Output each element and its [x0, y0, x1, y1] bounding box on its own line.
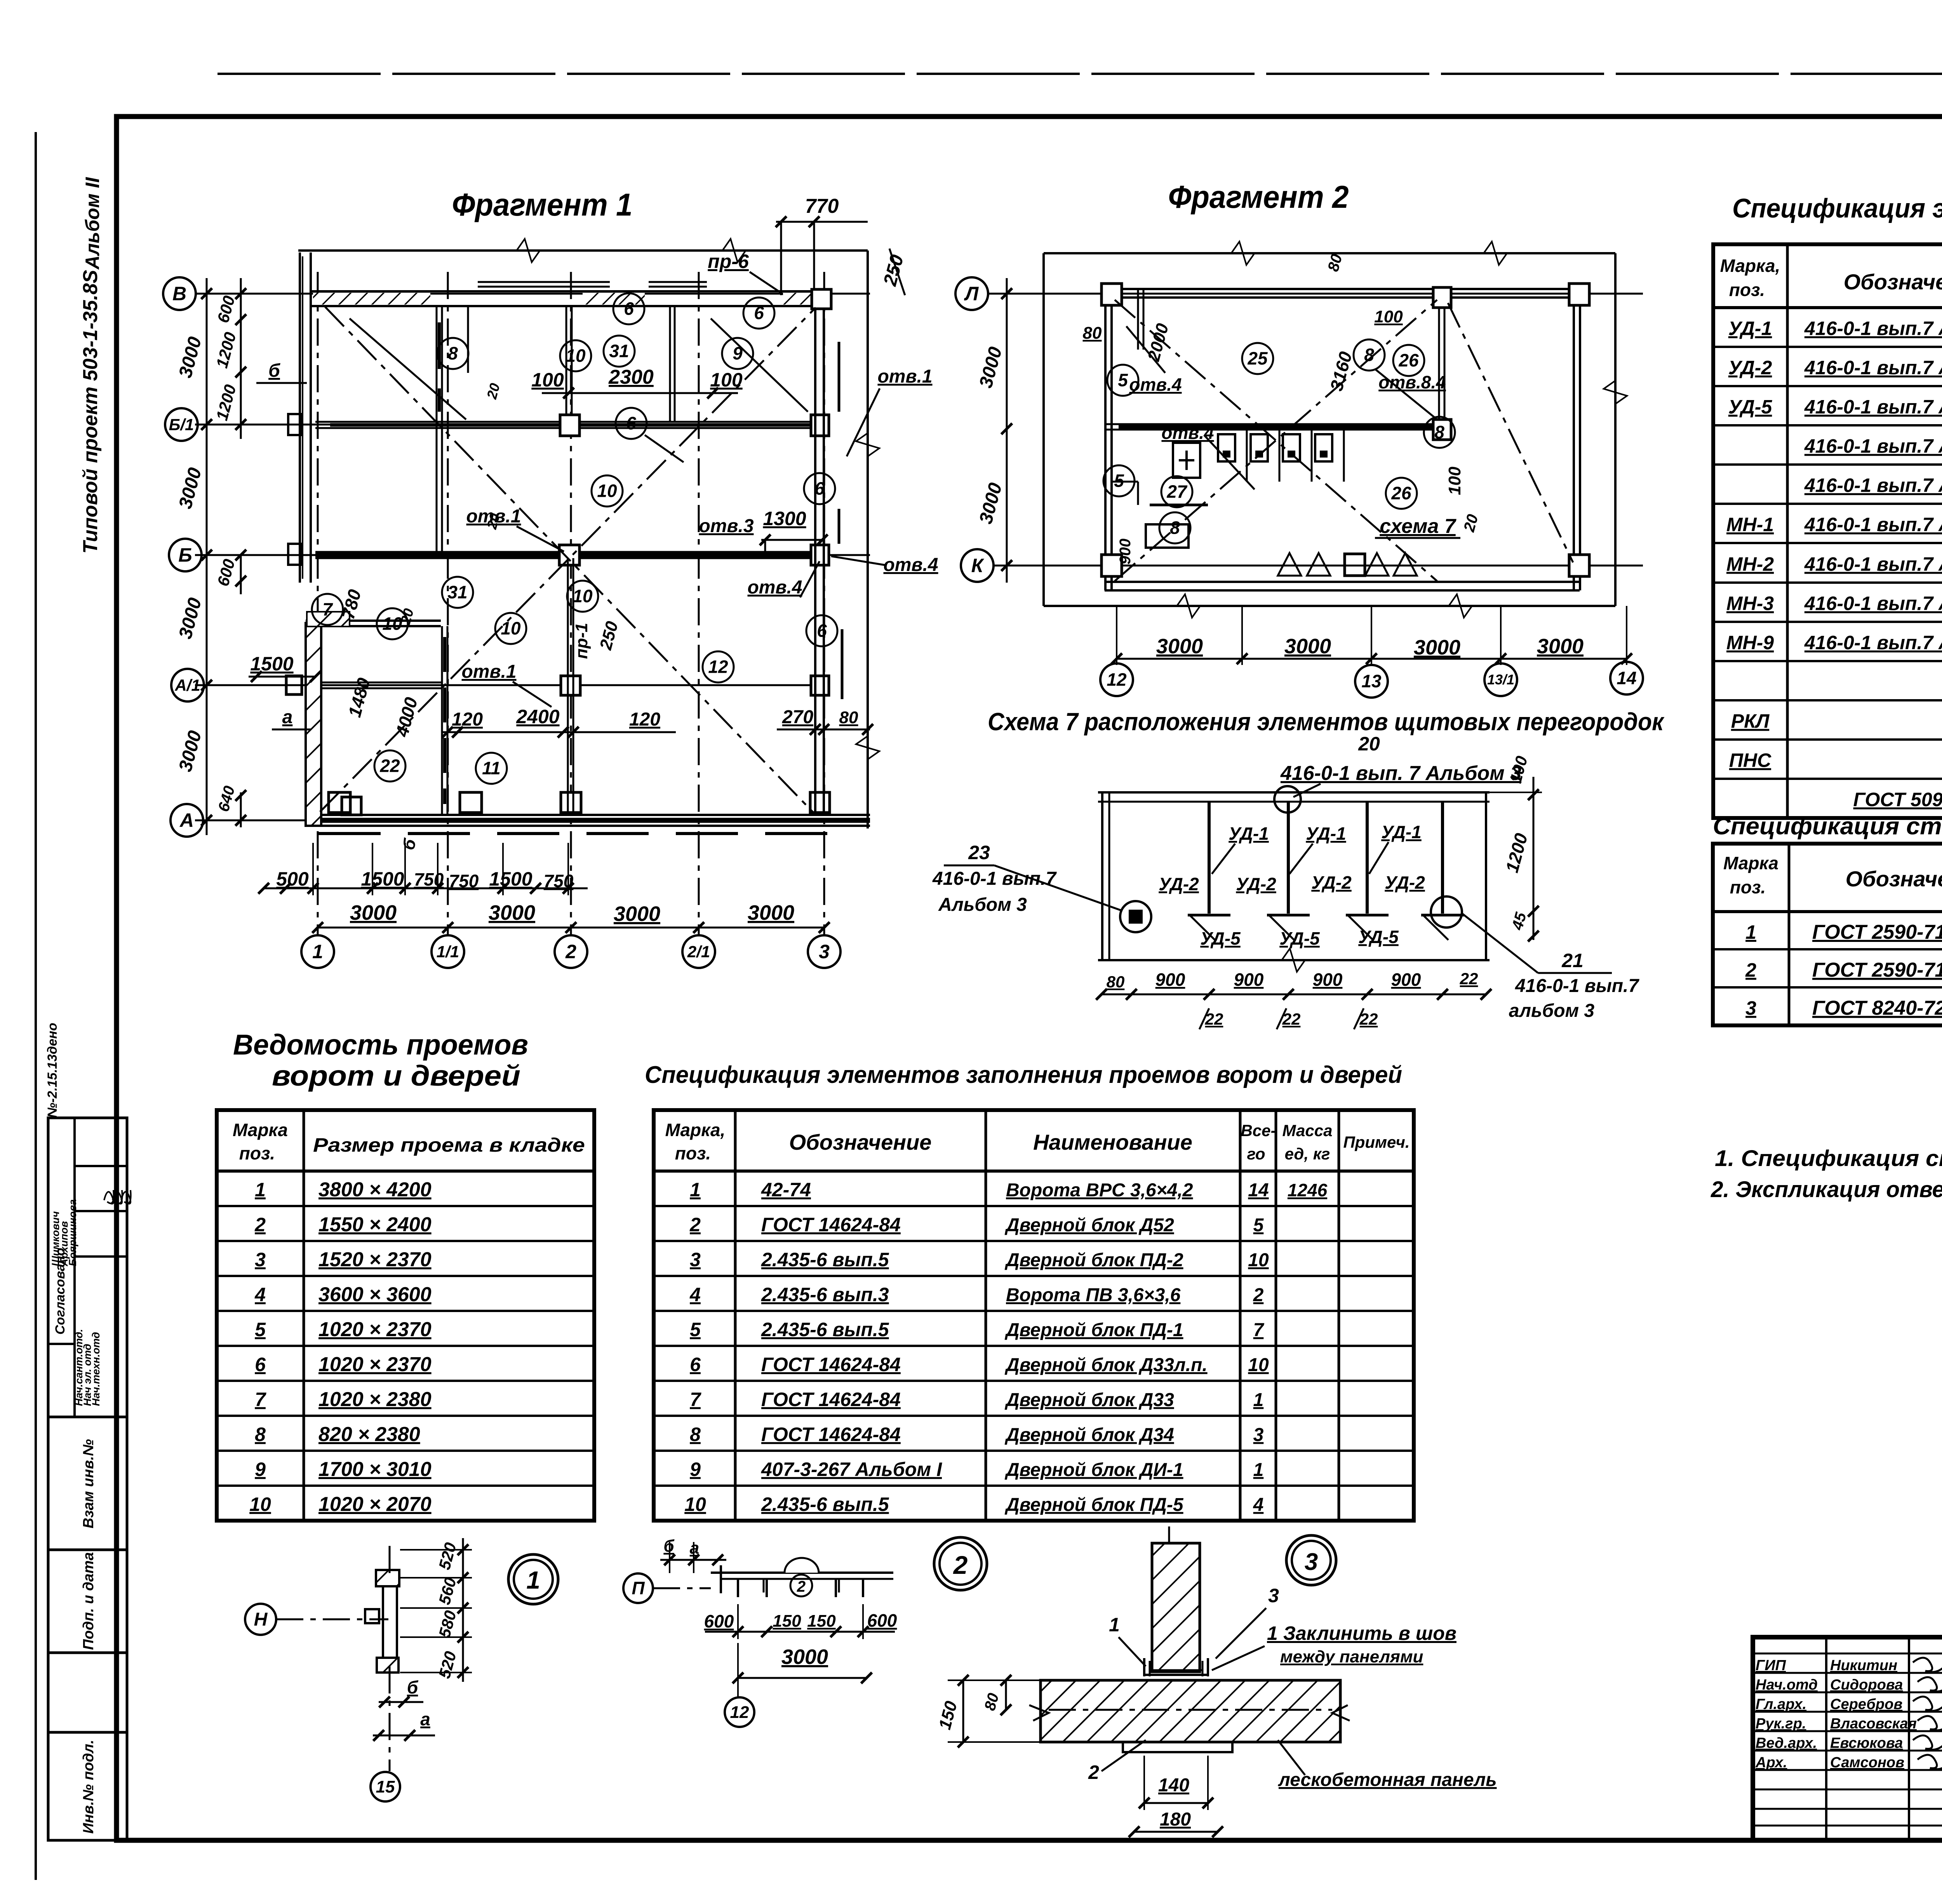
svg-text:23: 23 [968, 842, 990, 863]
svg-text:б: б [407, 1677, 419, 1697]
svg-text:3000: 3000 [781, 1645, 828, 1669]
axis circle 14 [1610, 662, 1643, 694]
fragment 2 left wall stub above [1137, 289, 1139, 350]
svg-text:УД-2: УД-2 [1385, 872, 1425, 893]
svg-text:2300: 2300 [608, 366, 654, 388]
svg-text:3000: 3000 [1414, 636, 1460, 659]
left page edge line [35, 132, 37, 1880]
svg-text:поз.: поз. [239, 1143, 275, 1163]
svg-text:отв.3: отв.3 [699, 516, 753, 536]
detail 2 small circle 2 [790, 1575, 812, 1596]
svg-text:МН-9: МН-9 [1726, 632, 1774, 654]
wall along axis В [311, 290, 820, 292]
svg-text:Обозначение: Обозначение [1844, 270, 1942, 294]
title block signature columns [1825, 1637, 1827, 1840]
svg-text:10: 10 [1248, 1355, 1269, 1375]
detail 1 left protrusion [365, 1609, 379, 1623]
callout circle 11 [476, 753, 507, 784]
svg-text:1520 × 2370: 1520 × 2370 [318, 1248, 432, 1271]
callout circle 6 [613, 293, 644, 324]
partition wall at Б/1 [315, 421, 827, 423]
axis circle К [961, 549, 994, 582]
svg-text:140: 140 [1158, 1775, 1189, 1796]
svg-text:2.435-6 вып.5: 2.435-6 вып.5 [761, 1319, 889, 1340]
svg-text:8: 8 [1364, 345, 1374, 365]
junction detail at Б/1 x2 [560, 415, 579, 436]
upper partition x=1731 [669, 307, 671, 422]
svg-text:21: 21 [1561, 950, 1584, 971]
svg-text:2: 2 [1253, 1285, 1264, 1305]
svg-text:6: 6 [690, 1354, 701, 1375]
svg-text:ГОСТ 2590-71: ГОСТ 2590-71 [1812, 959, 1942, 982]
svg-text:Ворота ВРС 3,6×4,2: Ворота ВРС 3,6×4,2 [1006, 1180, 1193, 1201]
fragment 1 right cut line [867, 251, 869, 828]
fragment 2 left wall [1104, 289, 1107, 590]
svg-text:1500: 1500 [250, 653, 293, 675]
svg-text:Арх.: Арх. [1755, 1754, 1787, 1771]
washroom fixture with cross [1173, 443, 1200, 478]
svg-text:1020 × 2380: 1020 × 2380 [318, 1388, 432, 1411]
svg-text:1500: 1500 [361, 868, 404, 890]
svg-text:альбом 3: альбом 3 [1509, 1001, 1595, 1021]
shelf line [1150, 504, 1208, 506]
toilet fixtures [1218, 434, 1235, 461]
detail 2 partition plan [711, 1572, 893, 1574]
fragment 2 diagonal 1 [1115, 300, 1437, 581]
left dim line fragment 2 [1006, 278, 1008, 583]
dim 640 at А [240, 792, 242, 827]
svg-text:ГОСТ 14624-84: ГОСТ 14624-84 [761, 1354, 901, 1375]
svg-text:Б: Б [178, 544, 192, 566]
callout circle 9 [722, 338, 753, 369]
svg-text:Рук.гр.: Рук.гр. [1756, 1716, 1806, 1732]
axis circle 12 [1100, 663, 1133, 696]
svg-text:Марка,: Марка, [1720, 256, 1780, 276]
svg-text:13/1: 13/1 [1487, 672, 1514, 687]
svg-text:Ворота ПВ 3,6×3,6: Ворота ПВ 3,6×3,6 [1006, 1285, 1181, 1305]
detail 2 view circle [934, 1537, 987, 1590]
svg-text:10: 10 [684, 1493, 706, 1515]
left outer wall upper [299, 252, 301, 583]
svg-text:600: 600 [867, 1610, 897, 1631]
svg-text:900: 900 [1117, 539, 1134, 565]
svg-text:2: 2 [565, 941, 576, 962]
svg-text:Подп. и дата: Подп. и дата [80, 1552, 97, 1650]
grid axis line 2/1 [698, 272, 700, 935]
svg-text:14: 14 [1617, 668, 1636, 688]
svg-text:Н: Н [254, 1609, 268, 1630]
diagonal leader from 6 to wall [645, 435, 684, 462]
spec table 2 grid [1713, 844, 1942, 1025]
svg-text:100: 100 [1445, 466, 1464, 495]
svg-text:20: 20 [1358, 733, 1380, 755]
svg-text:Обозначение: Обозначение [1846, 867, 1942, 891]
svg-text:поз.: поз. [1729, 280, 1765, 300]
svg-text:900: 900 [1313, 969, 1343, 990]
slab break arrows [1029, 1705, 1049, 1721]
svg-text:3600 × 3600: 3600 × 3600 [318, 1283, 432, 1306]
axis line К [993, 565, 1643, 567]
svg-text:13: 13 [1361, 671, 1382, 691]
svg-text:5: 5 [1114, 471, 1124, 491]
axis circle 13 [1355, 665, 1388, 698]
svg-text:МН-1: МН-1 [1726, 514, 1774, 536]
svg-text:6: 6 [814, 479, 825, 499]
svg-text:2: 2 [689, 1214, 701, 1236]
axis circle А [171, 804, 203, 837]
svg-text:12: 12 [730, 1703, 749, 1722]
svg-text:УД-5: УД-5 [1728, 396, 1773, 418]
svg-text:416-0-1 вып.7 Альбом 2: 416-0-1 вып.7 Альбом 2 [1804, 632, 1942, 654]
lower partition x=1464 [567, 558, 569, 815]
right wall fittings [812, 289, 831, 309]
scheme posts [1208, 802, 1211, 914]
svg-text:2.435-6 вып.3: 2.435-6 вып.3 [761, 1284, 889, 1305]
right wall small plates outside [838, 342, 840, 412]
svg-text:2400: 2400 [516, 706, 559, 727]
svg-text:22: 22 [379, 756, 400, 776]
svg-text:1550 × 2400: 1550 × 2400 [318, 1213, 432, 1236]
extension lines left [195, 293, 303, 294]
svg-text:го: го [1247, 1145, 1265, 1163]
secondary left dim 600 1200 1200 [240, 278, 242, 439]
axis circle 2/1 [682, 935, 715, 968]
right outer wall [814, 307, 816, 815]
fragment 2 bottom wall [1105, 581, 1580, 583]
callout circle 6 [743, 298, 774, 329]
axis circle 1 [301, 935, 334, 968]
svg-text:2.435-6 вып.5: 2.435-6 вып.5 [761, 1249, 889, 1270]
axis circle 3 [808, 935, 840, 968]
svg-text:3: 3 [1745, 997, 1756, 1019]
axis line А/1 [195, 684, 827, 686]
svg-text:8: 8 [1170, 518, 1180, 538]
svg-text:отв.4: отв.4 [1129, 374, 1182, 395]
svg-text:3: 3 [690, 1249, 701, 1270]
svg-text:416-0-1 вып.7 Альбом 2: 416-0-1 вып.7 Альбом 2 [1804, 553, 1942, 575]
detail 1 center line [389, 1546, 391, 1577]
callout circle 31 [604, 336, 635, 367]
svg-text:11: 11 [482, 758, 501, 778]
toilet stall partitions [1246, 430, 1248, 482]
svg-text:Альбом II: Альбом II [82, 177, 103, 270]
upper partition x=1464 [566, 307, 567, 415]
svg-text:УД-1: УД-1 [1306, 823, 1346, 844]
svg-text:МН-3: МН-3 [1726, 593, 1774, 614]
detail 3 channel [1143, 1658, 1145, 1676]
callout circle 12 [703, 651, 734, 682]
svg-text:5: 5 [1118, 370, 1128, 390]
svg-text:1. Спецификация стали дана: 1. Спецификация стали дана на один узел … [1715, 1146, 1942, 1171]
svg-text:1: 1 [690, 1179, 701, 1201]
svg-text:1/1: 1/1 [437, 942, 459, 961]
callout circle 8 [437, 338, 468, 369]
svg-text:УД-1: УД-1 [1728, 318, 1772, 339]
svg-text:416-0-1 вып.7 Альбом 2: 416-0-1 вып.7 Альбом 2 [1804, 475, 1942, 496]
svg-text:6: 6 [624, 299, 634, 319]
equipment triangles on bottom wall [1278, 553, 1301, 576]
svg-text:1246: 1246 [1288, 1180, 1328, 1200]
fragment 2 right cut lines [1614, 253, 1617, 606]
callout circle 5 [1107, 365, 1138, 396]
scheme right edge [1485, 792, 1487, 960]
callout circle 26 [1386, 478, 1417, 509]
fragment 2 left inner stub lower [1137, 482, 1139, 505]
svg-text:Нач.техн.отд: Нач.техн.отд [90, 1332, 102, 1406]
callout circle 25 [1242, 343, 1273, 374]
svg-text:3000: 3000 [1537, 635, 1584, 658]
svg-text:УД-5: УД-5 [1358, 927, 1399, 947]
fragment 2 diagonal 2 [1115, 300, 1437, 581]
svg-text:1: 1 [1109, 1614, 1120, 1636]
svg-text:УД-1: УД-1 [1381, 822, 1422, 842]
svg-text:Дверной блок Д33л.п.: Дверной блок Д33л.п. [1004, 1355, 1208, 1375]
svg-text:2: 2 [797, 1578, 806, 1595]
svg-text:УД-1: УД-1 [1229, 823, 1269, 844]
svg-text:Фрагмент 1: Фрагмент 1 [452, 187, 633, 223]
svg-text:80: 80 [1107, 973, 1125, 991]
svg-text:416-0-1 вып.7 Альбом 2: 416-0-1 вып.7 Альбом 2 [1804, 318, 1942, 339]
wall fitting at Б/1 left [288, 414, 301, 435]
callout circle 8 [1159, 512, 1190, 543]
svg-text:Бояршинова: Бояршинова [67, 1199, 78, 1266]
callout circle 6 [804, 473, 835, 504]
svg-text:Дверной блок ПД-1: Дверной блок ПД-1 [1004, 1320, 1183, 1340]
callout circle 27 [1161, 476, 1192, 507]
svg-text:пр-6: пр-6 [708, 251, 749, 272]
svg-text:900: 900 [1234, 969, 1264, 990]
svg-text:Спецификация стали на узел к: Спецификация стали на узел крепления кир… [1713, 813, 1942, 840]
diagonal leader upper-left [350, 318, 466, 419]
left margin stamp table [48, 1118, 127, 1840]
svg-text:УД-2: УД-2 [1728, 357, 1772, 379]
svg-text:ГОСТ 14624-84: ГОСТ 14624-84 [761, 1214, 901, 1236]
scheme dim row [1102, 994, 1486, 996]
svg-text:Ведомость проемов: Ведомость проемов [233, 1029, 528, 1061]
svg-text:270: 270 [782, 707, 813, 727]
svg-text:2: 2 [1745, 959, 1756, 981]
svg-text:б: б [268, 360, 280, 381]
svg-text:3000: 3000 [614, 902, 660, 926]
lower partition x=1145 [441, 626, 443, 815]
svg-text:1020 × 2370: 1020 × 2370 [318, 1318, 432, 1341]
detail 2 left end bar [720, 1565, 722, 1593]
svg-text:416-0-1 вып.7 Альбом 2: 416-0-1 вып.7 Альбом 2 [1804, 357, 1942, 379]
svg-text:отв.1: отв.1 [877, 366, 932, 387]
detail 2 bump arc [785, 1558, 819, 1573]
detail 1 vertical bars [382, 1586, 384, 1658]
svg-text:Никитин: Никитин [1830, 1657, 1897, 1674]
svg-text:МН-2: МН-2 [1726, 553, 1774, 575]
page top edge line [218, 73, 1942, 75]
svg-text:Дверной блок ПД-2: Дверной блок ПД-2 [1004, 1250, 1183, 1270]
svg-text:Наименование: Наименование [1033, 1130, 1192, 1154]
lower room top wall [306, 620, 441, 622]
fragment 2 vertical partition [1438, 289, 1440, 430]
svg-text:Вед.арх.: Вед.арх. [1756, 1735, 1817, 1751]
diagonal brace line 1 [325, 307, 816, 815]
svg-text:10: 10 [382, 614, 402, 634]
svg-text:А/1: А/1 [174, 676, 200, 694]
svg-text:Марка,: Марка, [665, 1120, 726, 1140]
junction detail at А/1 x2 [561, 676, 580, 695]
svg-text:ГОСТ 8240-72: ГОСТ 8240-72 [1812, 997, 1942, 1020]
svg-text:150: 150 [807, 1612, 836, 1631]
partition stub from В wall down at x=1205 [467, 307, 469, 373]
scheme band bottom [1098, 959, 1490, 961]
svg-text:3: 3 [1305, 1549, 1318, 1575]
svg-text:1: 1 [1253, 1390, 1264, 1410]
junction detail at Б right [811, 545, 829, 565]
grid axis line 1 [317, 272, 319, 935]
svg-text:150: 150 [773, 1612, 801, 1631]
axis circle В [163, 277, 196, 310]
callout circle 6 [616, 408, 647, 439]
svg-text:отв.8.4: отв.8.4 [1378, 372, 1446, 392]
svg-text:К: К [971, 555, 985, 576]
axis circle 13/1 [1484, 663, 1517, 696]
wall fittings fragment 2 [1102, 284, 1122, 305]
svg-text:6: 6 [817, 621, 827, 641]
svg-text:7: 7 [690, 1389, 701, 1410]
svg-text:8: 8 [448, 343, 458, 364]
svg-text:416-0-1 вып.7 Альбом 2: 416-0-1 вып.7 Альбом 2 [1804, 593, 1942, 614]
title block signature rows [1753, 1653, 1942, 1655]
svg-text:ГОСТ 2590-71: ГОСТ 2590-71 [1812, 921, 1942, 943]
svg-text:Марка: Марка [233, 1120, 288, 1140]
grid axis line 3 [823, 272, 825, 935]
svg-text:3000: 3000 [1156, 635, 1203, 658]
svg-text:416-0-1 вып.7: 416-0-1 вып.7 [1515, 976, 1639, 996]
detail 2 dim row 600 150 150 600 [705, 1631, 895, 1633]
svg-text:42-74: 42-74 [761, 1179, 811, 1201]
svg-text:Обозначение: Обозначение [789, 1130, 932, 1154]
callout circle 10 [377, 608, 408, 639]
svg-text:26: 26 [1398, 350, 1419, 371]
svg-text:Дверной блок ПД-5: Дверной блок ПД-5 [1004, 1495, 1184, 1515]
spec table 1 grid [1713, 244, 1942, 818]
svg-text:5: 5 [255, 1319, 266, 1340]
svg-text:407-3-267 Альбом I: 407-3-267 Альбом I [761, 1458, 942, 1480]
callout circle 22 [374, 750, 405, 781]
svg-text:2: 2 [1088, 1761, 1099, 1783]
axis circle Б [169, 539, 202, 571]
equipment square on bottom wall [1345, 554, 1365, 576]
svg-text:7: 7 [322, 599, 333, 620]
svg-text:900: 900 [1391, 969, 1421, 990]
svg-text:РКЛ: РКЛ [1731, 710, 1770, 732]
svg-text:1020 × 2070: 1020 × 2070 [318, 1493, 432, 1516]
svg-text:80: 80 [839, 708, 858, 727]
axis line Л [987, 293, 1643, 295]
svg-text:9: 9 [733, 343, 743, 364]
axis line Б [195, 554, 870, 556]
axis circle Л [955, 277, 988, 310]
axis line Б/1 [195, 424, 827, 426]
svg-text:5: 5 [1253, 1215, 1264, 1236]
axis line Н [276, 1619, 388, 1620]
svg-text:8: 8 [1434, 422, 1444, 442]
bottom dim extension verticals [312, 843, 314, 895]
svg-text:отв.4: отв.4 [1161, 423, 1214, 443]
svg-text:пр-1: пр-1 [572, 623, 591, 659]
diagonal brace line 2 [320, 308, 816, 812]
svg-text:3000: 3000 [350, 901, 397, 924]
svg-text:3: 3 [1253, 1425, 1264, 1445]
svg-text:10: 10 [1248, 1250, 1269, 1270]
svg-text:4: 4 [1253, 1495, 1264, 1515]
svg-text:УД-2: УД-2 [1311, 872, 1352, 893]
scheme right dim [1533, 777, 1535, 940]
callout circle 10 [495, 613, 526, 644]
svg-text:между панелями: между панелями [1280, 1647, 1423, 1666]
svg-text:ГОСТ 14624-84: ГОСТ 14624-84 [761, 1389, 901, 1410]
callout circle 8 [1354, 339, 1385, 371]
svg-text:3000: 3000 [1284, 635, 1331, 658]
svg-text:отв.1: отв.1 [461, 661, 516, 682]
svg-text:180: 180 [1160, 1809, 1191, 1830]
svg-text:поз.: поз. [675, 1143, 711, 1163]
bench rectangle [1146, 524, 1189, 548]
svg-text:416-0-1 вып.7 Альбом 2: 416-0-1 вып.7 Альбом 2 [1804, 396, 1942, 418]
grid axis line 1/1 [447, 272, 449, 935]
svg-text:31: 31 [609, 341, 629, 361]
svg-text:416-0-1 вып.7: 416-0-1 вып.7 [932, 868, 1057, 889]
svg-text:31: 31 [447, 582, 467, 602]
svg-text:1: 1 [255, 1179, 266, 1201]
detail 3 view circle [1286, 1535, 1336, 1585]
svg-text:В: В [172, 283, 186, 305]
svg-text:120: 120 [629, 709, 660, 730]
callout circle 10 [560, 340, 591, 371]
svg-text:Дверной блок Д34: Дверной блок Д34 [1004, 1425, 1174, 1445]
grid axis line 2 [570, 272, 572, 935]
svg-text:схема 7: схема 7 [1380, 515, 1456, 538]
svg-text:УД-2: УД-2 [1236, 874, 1276, 894]
svg-text:Сидорова: Сидорова [1830, 1677, 1903, 1693]
callout circle left [1120, 901, 1151, 932]
svg-text:1020 × 2370: 1020 × 2370 [318, 1353, 432, 1376]
svg-text:14: 14 [1248, 1180, 1269, 1201]
callout circle 6 [806, 615, 837, 646]
junction details on А wall [329, 792, 350, 813]
svg-text:3800 × 4200: 3800 × 4200 [318, 1178, 432, 1201]
svg-text:3000: 3000 [748, 901, 794, 924]
callout circle 8 [1424, 417, 1455, 448]
axis circle 12 detail [725, 1697, 754, 1727]
left lower hatched wall [306, 623, 321, 826]
axis circle Н [245, 1604, 276, 1635]
svg-text:2.435-6 вып.5: 2.435-6 вып.5 [761, 1493, 889, 1515]
svg-text:Евсюкова: Евсюкова [1830, 1735, 1903, 1751]
svg-text:9: 9 [690, 1458, 701, 1480]
svg-text:120: 120 [452, 709, 483, 730]
callout circle 7 [312, 594, 343, 625]
svg-text:2: 2 [254, 1214, 266, 1236]
callout circle 26 [1393, 345, 1424, 376]
svg-text:1500: 1500 [489, 868, 532, 890]
axis circle Б/1 [165, 408, 198, 441]
detail 1 right dim line [462, 1538, 464, 1682]
fragment 2 bottom dim line [1117, 658, 1627, 660]
svg-text:100: 100 [531, 369, 564, 391]
fragment 1 top cut line [298, 249, 868, 252]
svg-text:ед, кг: ед, кг [1285, 1145, 1330, 1163]
title block outer [1753, 1637, 1942, 1840]
svg-text:1: 1 [526, 1566, 540, 1594]
fragment 2 bottom cut line [1044, 605, 1615, 607]
svg-text:820 × 2380: 820 × 2380 [318, 1423, 420, 1446]
